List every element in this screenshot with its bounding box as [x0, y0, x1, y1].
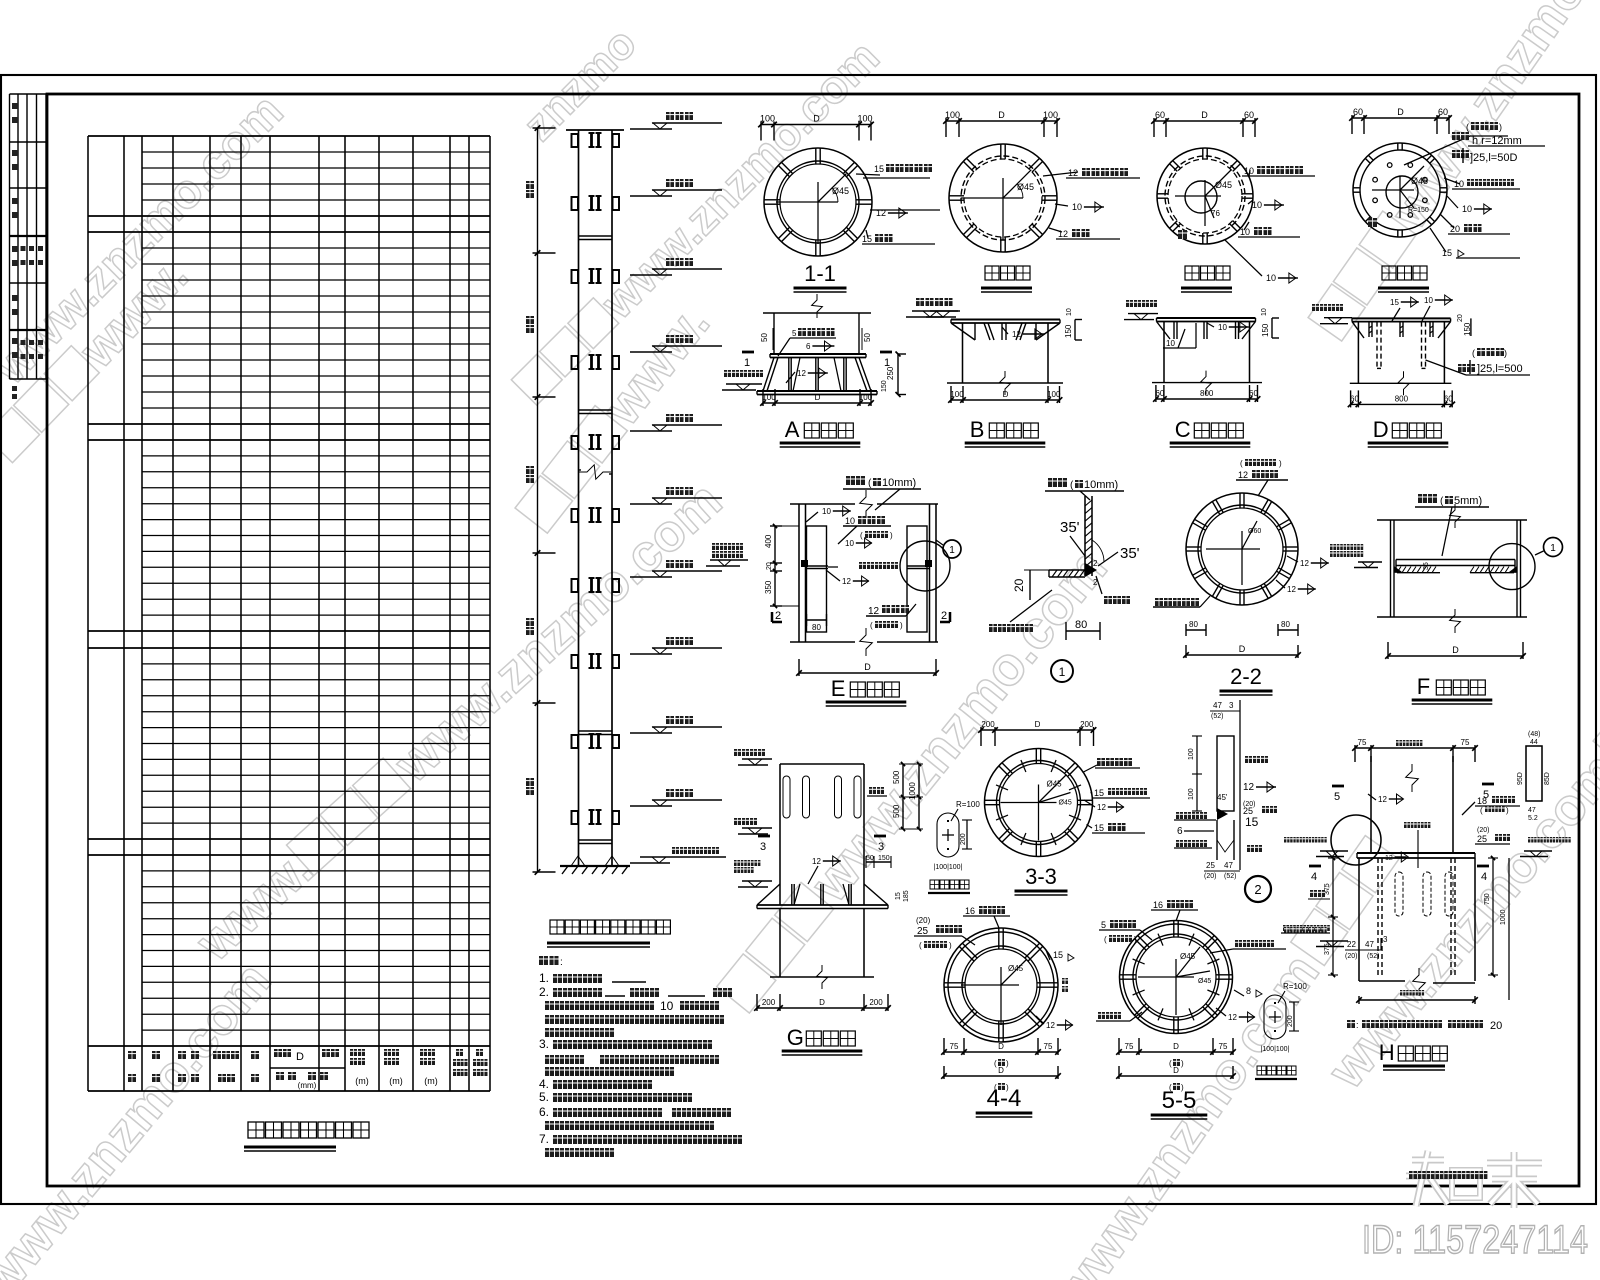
svg-text:|100|100|: |100|100| [1261, 1046, 1290, 1053]
hole detail (kai kong da yang) [937, 813, 959, 857]
svg-text:F: F [1417, 674, 1430, 699]
svg-text:D: D [1003, 390, 1009, 399]
svg-text:): ) [890, 531, 893, 540]
svg-text:75: 75 [1461, 738, 1470, 747]
svg-text:(20): (20) [1345, 953, 1357, 960]
svg-text:5: 5 [1101, 920, 1106, 930]
svg-text:75: 75 [1044, 1042, 1053, 1051]
svg-text:(m): (m) [389, 1076, 403, 1086]
svg-text:95D: 95D [1517, 772, 1524, 785]
title: column segmentation diagram [550, 920, 564, 934]
level mark right of A [912, 310, 958, 312]
svg-text:H: H [1379, 1040, 1395, 1065]
svg-text:): ) [1181, 1059, 1184, 1068]
svg-text:10: 10 [1462, 204, 1472, 214]
detail top-view D with anchor bolt ring [1352, 117, 1449, 119]
svg-text:200: 200 [762, 998, 776, 1007]
svg-text:4-4: 4-4 [987, 1085, 1022, 1112]
svg-text:4: 4 [1311, 871, 1317, 883]
svg-text:Ø45: Ø45 [1215, 180, 1232, 190]
svg-text:(: ( [860, 531, 863, 540]
svg-text:G: G [787, 1025, 804, 1050]
level mark left of B [930, 310, 960, 312]
svg-text:5-5: 5-5 [1162, 1087, 1197, 1114]
svg-text:500: 500 [892, 804, 901, 818]
svg-text:4.: 4. [539, 1077, 549, 1091]
svg-text:10: 10 [845, 539, 854, 548]
svg-text::: : [1356, 1020, 1359, 1030]
svg-text:(m): (m) [355, 1076, 369, 1086]
watermark strands [0, 85, 293, 395]
detail top-view B (ding shi tu) [946, 120, 1057, 122]
svg-text:800: 800 [1395, 394, 1409, 403]
svg-text:1-1: 1-1 [804, 261, 836, 286]
svg-text:2: 2 [1093, 578, 1098, 587]
svg-text:100: 100 [950, 390, 964, 399]
svg-text:15: 15 [862, 234, 872, 244]
svg-text:D: D [815, 393, 821, 402]
svg-text:18: 18 [1477, 796, 1487, 806]
joint type B [951, 319, 1060, 321]
joint type A [763, 312, 871, 314]
joint type D [1352, 317, 1451, 319]
svg-text:100: 100 [760, 114, 775, 124]
svg-text:10: 10 [1261, 308, 1268, 316]
svg-text:Ø60: Ø60 [1248, 528, 1261, 535]
svg-text:D: D [813, 114, 820, 124]
svg-text:12: 12 [1238, 470, 1248, 480]
steel pipe concrete column table (grid) [87, 136, 89, 1091]
svg-text:D: D [296, 1051, 304, 1063]
svg-text:10: 10 [1252, 200, 1262, 210]
svg-text:12: 12 [1385, 855, 1393, 862]
svg-text:(: ( [1466, 122, 1469, 132]
svg-text:1: 1 [744, 357, 750, 369]
svg-text:500: 500 [892, 770, 901, 784]
svg-text:3: 3 [760, 841, 766, 853]
svg-text:80: 80 [812, 623, 821, 632]
svg-text:10: 10 [1240, 227, 1250, 237]
note under H [1347, 1020, 1355, 1028]
svg-text:): ) [1504, 348, 1507, 358]
svg-text:15: 15 [1094, 788, 1104, 798]
svg-text:150: 150 [881, 380, 888, 392]
hole detail (kai kong da yang) [1264, 995, 1286, 1039]
svg-text:D: D [1201, 110, 1208, 120]
svg-text:5.: 5. [539, 1090, 549, 1104]
svg-text:44: 44 [1530, 739, 1538, 746]
balloon detail 2 [1245, 876, 1271, 902]
svg-text:D: D [1452, 645, 1459, 655]
section 3-3 ring [981, 729, 1094, 731]
svg-text:75: 75 [950, 1042, 959, 1051]
svg-text:): ) [1134, 935, 1137, 944]
svg-text:Ø45: Ø45 [1198, 978, 1211, 985]
svg-text:35': 35' [1060, 519, 1080, 536]
svg-text:76: 76 [1211, 209, 1220, 218]
svg-text:(: ( [1240, 459, 1243, 468]
svg-text:22: 22 [1347, 940, 1356, 949]
svg-text:60: 60 [1444, 394, 1453, 403]
svg-text:100: 100 [1188, 748, 1195, 760]
level mark left of D [1324, 317, 1352, 319]
svg-text:15: 15 [895, 892, 902, 900]
svg-text:2: 2 [1093, 559, 1098, 568]
sheet title text in bottom bar [1409, 1171, 1487, 1179]
svg-text:): ) [949, 941, 952, 950]
svg-text:10: 10 [845, 516, 855, 526]
svg-text:Ø45: Ø45 [1008, 964, 1024, 973]
svg-text:375: 375 [1324, 883, 1331, 895]
svg-text:80: 80 [1189, 620, 1198, 629]
svg-text:): ) [900, 621, 903, 630]
svg-text:(: ( [1104, 935, 1107, 944]
svg-text:7.: 7. [539, 1132, 549, 1146]
svg-text:200: 200 [981, 720, 995, 729]
svg-text::: : [560, 957, 563, 968]
svg-text:10mm): 10mm) [1084, 479, 1118, 491]
svg-text:): ) [1499, 122, 1502, 132]
column base / ground hatch [560, 865, 630, 867]
svg-text:12: 12 [1097, 803, 1106, 812]
svg-text:Ø45: Ø45 [1017, 182, 1034, 192]
joint type C [1157, 317, 1256, 319]
svg-text:10: 10 [1454, 179, 1464, 189]
svg-text:(m): (m) [424, 1076, 438, 1086]
section 2-2 ring [1186, 493, 1298, 605]
svg-text:(mm): (mm) [298, 1081, 317, 1090]
svg-text:5: 5 [1334, 791, 1340, 803]
svg-text:Ø45: Ø45 [1411, 176, 1428, 186]
svg-text:(52): (52) [1211, 713, 1223, 720]
svg-text:60: 60 [1155, 389, 1164, 398]
svg-text:D: D [864, 662, 871, 672]
svg-text:6: 6 [806, 342, 811, 351]
svg-text:5: 5 [792, 329, 797, 338]
svg-text:(48): (48) [1528, 731, 1540, 738]
notes text block (shuo ming) [539, 956, 559, 965]
svg-text:3: 3 [878, 841, 884, 853]
column segmentation elevation diagram [578, 130, 580, 866]
svg-text:20: 20 [1012, 578, 1026, 592]
svg-text:15: 15 [1390, 298, 1399, 307]
svg-text:50: 50 [866, 855, 874, 862]
svg-text:47: 47 [1365, 940, 1374, 949]
svg-text:15: 15 [1442, 248, 1452, 258]
svg-text:3: 3 [1383, 935, 1388, 944]
svg-text:100: 100 [1043, 110, 1058, 120]
svg-text:4: 4 [1481, 871, 1487, 883]
svg-text:100: 100 [762, 393, 776, 402]
svg-text:10: 10 [822, 507, 831, 516]
svg-text:12: 12 [812, 857, 821, 866]
svg-text:D: D [1035, 720, 1041, 729]
svg-text:200: 200 [1287, 1015, 1294, 1027]
svg-text:1: 1 [949, 545, 955, 556]
svg-text:20: 20 [1490, 1020, 1502, 1032]
svg-text:75: 75 [1358, 738, 1367, 747]
svg-text:47: 47 [1224, 861, 1233, 870]
svg-text:5mm): 5mm) [1454, 495, 1482, 507]
level mark left of A [726, 383, 762, 385]
svg-text:1000: 1000 [1500, 909, 1507, 925]
svg-text:3.: 3. [539, 1037, 549, 1051]
svg-text:60: 60 [1249, 389, 1258, 398]
elevation storey-height dimension chain [537, 128, 539, 872]
section 4-4 ring [944, 928, 1058, 1042]
column joint marks [572, 134, 579, 147]
svg-text:D: D [998, 110, 1005, 120]
svg-text:25: 25 [1206, 861, 1215, 870]
svg-text:80: 80 [1075, 619, 1087, 631]
svg-text:60: 60 [1350, 394, 1359, 403]
svg-text:1000: 1000 [908, 782, 917, 800]
svg-text:E: E [831, 676, 846, 701]
svg-text:2: 2 [1254, 882, 1261, 897]
svg-text:6: 6 [1177, 826, 1183, 837]
svg-text:(: ( [870, 621, 873, 630]
svg-text:2: 2 [941, 610, 947, 622]
svg-text:12: 12 [1243, 782, 1255, 793]
svg-text:2.: 2. [539, 985, 549, 999]
left title strip table [9, 94, 11, 379]
svg-text:25: 25 [917, 926, 929, 937]
detail 1-1: pipe section top view [761, 124, 871, 126]
svg-text:R=100: R=100 [956, 800, 980, 809]
svg-text:(: ( [1472, 348, 1475, 358]
svg-text:Ø45: Ø45 [1059, 800, 1072, 807]
svg-text:60: 60 [1244, 110, 1254, 120]
svg-text:8: 8 [1246, 986, 1251, 996]
svg-text:12: 12 [1300, 559, 1309, 568]
svg-text:20: 20 [1457, 314, 1464, 322]
title ding-shi-tu 3 [1382, 266, 1396, 280]
svg-text:1.: 1. [539, 971, 549, 985]
svg-text:C: C [1175, 417, 1191, 442]
joint type H [1355, 747, 1475, 749]
svg-text:50: 50 [760, 333, 769, 342]
svg-text:12: 12 [1046, 1021, 1055, 1030]
svg-text:10: 10 [1072, 202, 1082, 212]
svg-text:B: B [970, 417, 985, 442]
svg-text:): ) [1006, 1059, 1009, 1068]
weld bevel detail (1) [1048, 478, 1067, 487]
table title: steel pipe concrete column table [248, 1122, 264, 1138]
svg-text:(20): (20) [916, 916, 931, 925]
svg-text:(: ( [1480, 806, 1483, 815]
svg-text:|100|100|: |100|100| [934, 864, 963, 871]
svg-text:50: 50 [863, 333, 872, 342]
svg-text:(20): (20) [1204, 873, 1216, 880]
svg-text:100: 100 [859, 393, 873, 402]
svg-text:R=150: R=150 [1408, 207, 1429, 214]
section 5-5 ring [1120, 921, 1233, 1034]
svg-text:(20): (20) [1477, 827, 1489, 834]
svg-text:45': 45' [1217, 793, 1228, 802]
svg-text:2: 2 [775, 610, 781, 622]
svg-text:1: 1 [1059, 665, 1066, 679]
svg-text:12: 12 [842, 577, 851, 586]
svg-text:D: D [1373, 417, 1389, 442]
svg-text:(52): (52) [1367, 953, 1379, 960]
svg-text:10: 10 [1266, 273, 1276, 283]
svg-text:200: 200 [1080, 720, 1094, 729]
svg-text:12: 12 [1058, 229, 1068, 239]
svg-text:20: 20 [1450, 224, 1460, 234]
svg-text:D: D [1397, 107, 1404, 117]
joint type G [780, 763, 864, 765]
svg-text:h r=12mm: h r=12mm [1472, 135, 1522, 147]
znzmo logo (hollow strokes) bottom right [1412, 1157, 1444, 1164]
table header row labels [270, 1067, 345, 1069]
svg-text:250: 250 [886, 366, 895, 380]
svg-text:D: D [998, 1066, 1004, 1075]
svg-text:15: 15 [1053, 950, 1063, 960]
svg-text:5.2: 5.2 [1528, 815, 1538, 822]
svg-text:D: D [998, 1042, 1004, 1051]
title ding-shi-tu 2 [1185, 266, 1199, 280]
svg-text:12: 12 [1012, 330, 1021, 339]
svg-text:Ø45: Ø45 [832, 186, 849, 196]
svg-text:16: 16 [1153, 900, 1163, 910]
svg-text:12: 12 [797, 369, 806, 378]
svg-text:350: 350 [764, 580, 773, 594]
svg-text:35': 35' [1120, 545, 1140, 562]
svg-text:10: 10 [1218, 323, 1227, 332]
svg-text:100: 100 [857, 114, 872, 124]
svg-text:85D: 85D [1544, 772, 1551, 785]
svg-text:80: 80 [1281, 620, 1290, 629]
svg-text:(: ( [1169, 1059, 1172, 1068]
svg-text:60: 60 [1353, 107, 1363, 117]
svg-text:100: 100 [945, 110, 960, 120]
svg-text:D: D [1173, 1066, 1179, 1075]
svg-text:]25,l=500: ]25,l=500 [1477, 363, 1523, 375]
svg-text:47: 47 [1213, 701, 1222, 710]
svg-text:Ø45: Ø45 [1047, 780, 1063, 789]
svg-text:R=100: R=100 [1283, 982, 1307, 991]
svg-text:1: 1 [1550, 543, 1556, 554]
svg-text:15: 15 [1094, 823, 1104, 833]
svg-text:(: ( [994, 1059, 997, 1068]
svg-text:(52): (52) [1224, 873, 1236, 880]
svg-text:): ) [1506, 806, 1509, 815]
svg-text:100: 100 [1188, 788, 1195, 800]
svg-text:150: 150 [878, 855, 890, 862]
svg-text:12: 12 [1228, 1013, 1237, 1022]
svg-text:10: 10 [1244, 166, 1254, 176]
svg-text:): ) [1279, 459, 1282, 468]
svg-text:200: 200 [960, 833, 967, 845]
svg-text:375: 375 [1324, 943, 1331, 955]
svg-text:6.: 6. [539, 1105, 549, 1119]
svg-text:20: 20 [766, 562, 773, 570]
balloon detail 1 [1051, 660, 1073, 682]
svg-text:3: 3 [1229, 701, 1234, 710]
svg-text:12: 12 [1068, 168, 1078, 178]
svg-text:(: ( [919, 941, 922, 950]
svg-text:150: 150 [1261, 323, 1270, 337]
svg-text:75: 75 [1219, 1042, 1228, 1051]
level mark left of C [1128, 313, 1158, 315]
svg-text:10mm): 10mm) [882, 477, 916, 489]
svg-text:D: D [819, 998, 825, 1007]
svg-text:10: 10 [1066, 308, 1073, 316]
svg-text:16: 16 [965, 906, 975, 916]
svg-text:60: 60 [1155, 110, 1165, 120]
svg-text:75: 75 [1125, 1042, 1134, 1051]
svg-text:400: 400 [764, 534, 773, 548]
svg-text:60: 60 [1438, 107, 1448, 117]
joint type E [846, 476, 865, 485]
svg-text:Ø45: Ø45 [1180, 952, 1196, 961]
joint type F [1418, 494, 1437, 503]
svg-text:12: 12 [1378, 795, 1387, 804]
svg-text:100: 100 [1047, 390, 1061, 399]
svg-text:15: 15 [1245, 815, 1259, 829]
svg-text:35: 35 [1423, 562, 1430, 570]
svg-text:2-2: 2-2 [1230, 664, 1262, 689]
svg-text:750: 750 [1484, 893, 1491, 905]
svg-text:150: 150 [1463, 322, 1472, 336]
svg-text:ID: 1157247114: ID: 1157247114 [1362, 1218, 1588, 1262]
svg-text:15: 15 [874, 164, 884, 174]
svg-text:25: 25 [1477, 834, 1487, 844]
svg-text:12: 12 [876, 208, 886, 218]
svg-text:10: 10 [660, 999, 674, 1013]
svg-text:47: 47 [1528, 807, 1536, 814]
svg-text:D: D [1173, 1042, 1179, 1051]
title ding-shi-tu 1 [985, 266, 999, 280]
svg-text:10: 10 [1166, 339, 1175, 348]
svg-text:10: 10 [1424, 296, 1433, 305]
svg-text:A: A [785, 417, 800, 442]
svg-text:185: 185 [903, 890, 910, 902]
svg-text:800: 800 [1200, 389, 1214, 398]
svg-text:3-3: 3-3 [1025, 864, 1057, 889]
storey level symbols [652, 122, 722, 124]
svg-text:12: 12 [1287, 585, 1296, 594]
svg-text:D: D [1239, 644, 1246, 654]
detail top-view C with center pipe [1154, 120, 1255, 122]
liner plate piece right of H [1526, 746, 1542, 801]
svg-text:150: 150 [1064, 324, 1073, 338]
svg-text:200: 200 [869, 998, 883, 1007]
svg-text:]25,l=50D: ]25,l=50D [1470, 152, 1517, 164]
